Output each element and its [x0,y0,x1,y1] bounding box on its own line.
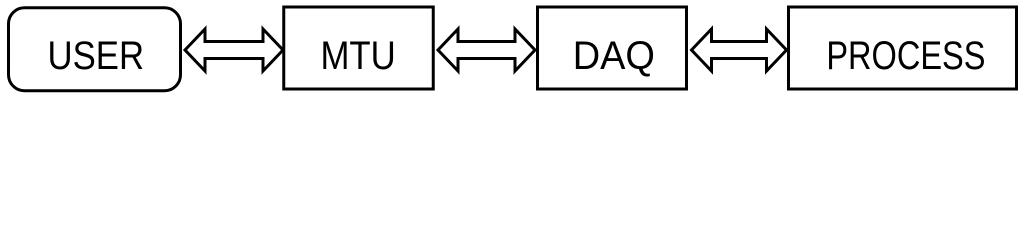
svg-text:MTU: MTU [320,33,395,78]
svg-text:USER: USER [48,33,144,78]
svg-text:DAQ: DAQ [573,35,655,79]
svg-text:PROCESS: PROCESS [826,33,985,78]
